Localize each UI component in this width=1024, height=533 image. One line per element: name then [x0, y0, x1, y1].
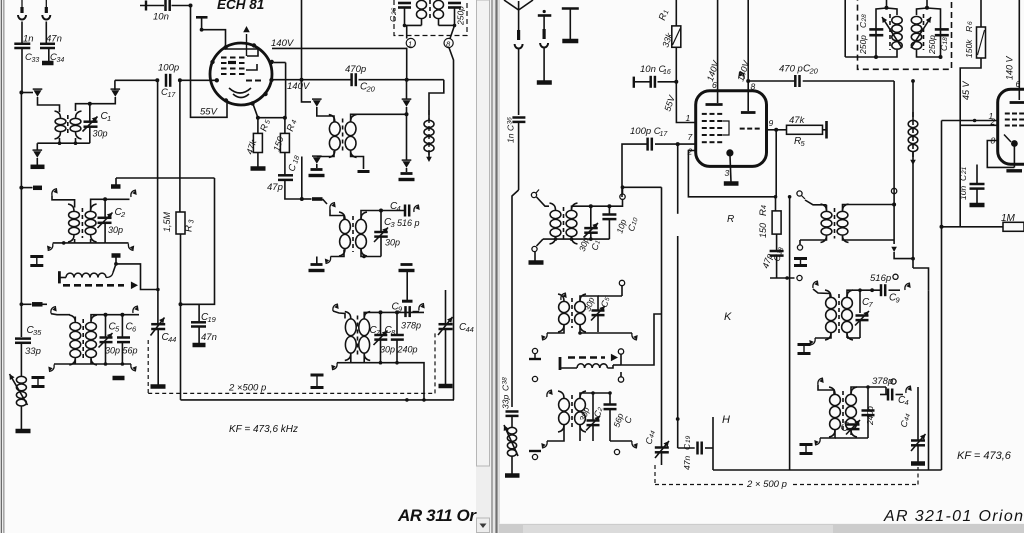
- node: [20, 302, 24, 306]
- pin 1: [406, 38, 415, 48]
- trimmer C5 30p (right): [582, 296, 611, 332]
- wire: [813, 288, 830, 297]
- hook arrow: [818, 378, 824, 385]
- svg-text:47k: 47k: [789, 115, 806, 126]
- wire: [317, 107, 334, 122]
- capacitor C4 (right): [880, 386, 912, 407]
- node: [104, 313, 125, 317]
- trimmer C7 (right): [855, 290, 874, 338]
- IF unit dashed box: [858, 0, 952, 69]
- label 140V: [287, 81, 311, 92]
- svg-text:47n: 47n: [46, 34, 62, 45]
- resistor R6 150k: [964, 21, 986, 58]
- svg-text:378p: 378p: [872, 376, 893, 387]
- wire: [359, 79, 444, 81]
- chassis: [16, 429, 31, 434]
- slug arrow: [21, 89, 42, 97]
- node: [892, 203, 896, 207]
- svg-text:C: C: [682, 443, 692, 450]
- svg-text:8: 8: [751, 82, 756, 92]
- wire: [894, 252, 915, 261]
- coupling bar: [312, 197, 323, 201]
- hook arrow: [333, 304, 339, 311]
- label 55V: [662, 93, 677, 112]
- wire: [868, 387, 880, 395]
- right panel bottom scrollbar: [500, 524, 1024, 533]
- label 140V: [271, 38, 295, 49]
- node: [114, 262, 118, 266]
- terminal: [532, 246, 537, 251]
- ibeam chassis: [798, 345, 811, 354]
- svg-text:3: 3: [189, 220, 196, 224]
- svg-text:1n: 1n: [23, 34, 34, 45]
- svg-text:2: 2: [687, 147, 693, 157]
- wire bottom bus: [54, 359, 131, 364]
- wire: [361, 250, 381, 259]
- capacitor to chassis: [309, 170, 325, 176]
- svg-text:250p: 250p: [456, 6, 466, 26]
- svg-text:30p: 30p: [380, 345, 395, 355]
- coupling bar: [111, 178, 121, 187]
- resistor R1 33k: [657, 9, 681, 48]
- wire: [675, 0, 677, 26]
- capacitor C33 1n: [14, 34, 39, 65]
- wire pin1: [942, 119, 998, 123]
- wire: [675, 47, 677, 82]
- node: [405, 78, 409, 82]
- pin 7 label: [688, 132, 693, 142]
- terminal: [614, 449, 619, 454]
- svg-text:6: 6: [967, 21, 974, 25]
- transformer: [558, 294, 586, 332]
- capacitor C35 33p: [15, 325, 42, 357]
- terminal input 1: [18, 0, 26, 19]
- hook arrow: [905, 283, 911, 290]
- gang link dashed 2x500p (right): [655, 467, 918, 490]
- svg-text:30p: 30p: [385, 238, 400, 248]
- chassis: [537, 80, 552, 85]
- svg-text:55V: 55V: [200, 107, 219, 118]
- resistor R4 150: [271, 118, 298, 153]
- transformer: [829, 387, 857, 437]
- wire: [803, 80, 894, 82]
- node: [300, 78, 304, 82]
- svg-text:16: 16: [663, 69, 671, 76]
- coupling bar: [21, 303, 42, 305]
- capacitor C20 470p: [345, 64, 376, 94]
- wire: [52, 196, 75, 208]
- svg-text:10n: 10n: [153, 12, 169, 23]
- wire: [90, 97, 116, 104]
- slug arrow: [402, 160, 412, 172]
- wire bus: [713, 469, 942, 471]
- gang link dashed: [147, 340, 149, 393]
- slug arrow: [402, 80, 412, 115]
- wire: [333, 311, 345, 319]
- capacitor 250p: [448, 3, 466, 26]
- wire: [180, 234, 182, 400]
- wire: [113, 264, 158, 290]
- capacitor to chassis: [309, 257, 325, 271]
- hook arrow: [541, 333, 547, 340]
- svg-text:19: 19: [208, 315, 217, 324]
- svg-text:240p: 240p: [397, 345, 418, 355]
- svg-text:1: 1: [107, 114, 111, 123]
- gang link dashed: [434, 333, 436, 393]
- wire: [621, 185, 662, 194]
- svg-text:2: 2: [120, 210, 126, 219]
- antenna terminal plug: [515, 10, 523, 115]
- node: [189, 4, 193, 8]
- wire AVC bus: [181, 399, 455, 401]
- svg-text:34: 34: [57, 57, 65, 64]
- wire top bus: [572, 200, 623, 210]
- left panel scrollbar track: [476, 0, 490, 533]
- svg-text:1: 1: [408, 39, 412, 48]
- hook arrow: [323, 199, 336, 210]
- node: [19, 91, 23, 95]
- wire: [917, 387, 919, 395]
- ibeam chassis: [800, 438, 813, 454]
- svg-text:3: 3: [725, 168, 730, 178]
- svg-text:33p: 33p: [501, 395, 511, 409]
- label AR 311: [397, 506, 477, 525]
- hook arrow: [541, 441, 547, 448]
- svg-text:100p: 100p: [158, 63, 179, 74]
- wire: [537, 197, 550, 206]
- tube ECH81 internals: [221, 26, 261, 98]
- node: [178, 78, 182, 82]
- wire: [445, 329, 447, 385]
- bar terminal: [58, 271, 61, 283]
- wire: [302, 157, 312, 200]
- hook arrow: [131, 190, 137, 197]
- wire: [48, 48, 50, 62]
- transformer: [821, 204, 849, 243]
- svg-text:35: 35: [33, 328, 42, 337]
- hook arrow: [52, 189, 58, 196]
- tube EF80 internals: [1004, 89, 1024, 147]
- trimmer C3 (right): [838, 420, 860, 435]
- svg-text:C: C: [958, 174, 968, 181]
- node: [774, 128, 778, 132]
- svg-text:4: 4: [397, 204, 401, 213]
- ibeam chassis: [311, 375, 324, 388]
- bar terminal: [559, 357, 562, 370]
- node: [746, 79, 750, 83]
- node: [674, 80, 678, 84]
- hook arrow: [414, 205, 420, 212]
- antenna coil: [10, 374, 28, 406]
- label 516p: [870, 273, 898, 284]
- label 45V: [961, 80, 971, 100]
- svg-text:KF = 473,6: KF = 473,6: [957, 450, 1012, 462]
- svg-text:44: 44: [168, 335, 176, 344]
- wire: [140, 5, 164, 7]
- hook arrow: [547, 390, 553, 397]
- svg-text:1,5M: 1,5M: [162, 211, 172, 232]
- coupling bar: [112, 256, 121, 264]
- hook arrow: [809, 338, 815, 345]
- variable inductor: [424, 110, 434, 162]
- coil with slug arrow: [911, 14, 931, 50]
- capacitor C19 47n: [191, 312, 217, 343]
- node: [676, 142, 680, 146]
- pin 6 label: [712, 80, 717, 90]
- label ECH 81: [217, 0, 264, 12]
- svg-text:516 p: 516 p: [397, 218, 420, 228]
- left window border: [1, 0, 3, 533]
- svg-text:AR 311 Or: AR 311 Or: [397, 506, 477, 525]
- svg-text:C: C: [388, 15, 398, 22]
- wire: [429, 80, 444, 120]
- wire: [43, 303, 48, 305]
- resistor R4 150 (right): [758, 197, 781, 238]
- svg-text:21: 21: [961, 166, 968, 175]
- svg-text:1: 1: [686, 113, 691, 123]
- grid cap terminal: [196, 17, 208, 29]
- wire: [91, 199, 106, 210]
- wire: [748, 80, 795, 82]
- svg-text:250p: 250p: [858, 35, 868, 55]
- wire C33 down to node: [21, 48, 23, 93]
- wire top bus: [580, 391, 612, 397]
- transformer IFT2: [329, 115, 357, 158]
- pin 1 label: [989, 111, 994, 121]
- chassis: [529, 450, 541, 452]
- label 140V: [705, 59, 721, 83]
- node: [155, 78, 159, 82]
- tube pin contacts: [210, 43, 274, 105]
- chassis: [724, 181, 739, 186]
- wire: [894, 79, 915, 187]
- gang link dashed 2x500p: [148, 383, 435, 394]
- svg-text:100p C: 100p C: [630, 126, 661, 137]
- wire: [257, 153, 259, 168]
- wire: [803, 197, 827, 211]
- node: [940, 225, 944, 229]
- node: [379, 361, 399, 365]
- svg-text:470 p: 470 p: [779, 64, 803, 75]
- svg-text:ECH 81: ECH 81: [217, 0, 264, 12]
- pin 6 label: [1016, 79, 1021, 89]
- variable inductor: [908, 81, 918, 168]
- svg-text:R: R: [964, 26, 974, 32]
- svg-text:30p: 30p: [105, 346, 120, 356]
- wire: [547, 326, 598, 335]
- IF unit dashed box: [394, 0, 467, 36]
- svg-text:9: 9: [769, 118, 774, 128]
- svg-text:1n: 1n: [506, 133, 516, 143]
- pin 8: [444, 38, 453, 48]
- wire: [941, 227, 943, 470]
- svg-text:140 V: 140 V: [1005, 55, 1015, 80]
- node: [833, 384, 835, 386]
- wire bottom of T1: [37, 138, 90, 143]
- coil with slug arrow: [882, 14, 902, 50]
- ibeam chassis: [30, 257, 43, 266]
- hook arrow: [47, 244, 53, 251]
- variable capacitor C44 (right): [643, 187, 669, 465]
- panel separator: [491, 0, 500, 533]
- capacitor 240p (right): [862, 387, 876, 438]
- tube EF80 envelope: [998, 89, 1024, 164]
- wire: [274, 63, 286, 118]
- wire: [36, 158, 38, 167]
- wire: [941, 121, 943, 227]
- wire 10n to 55V bracket: [191, 6, 228, 118]
- wire: [677, 144, 679, 214]
- core arrow dashed: [63, 282, 138, 290]
- wire: [788, 195, 792, 470]
- wire: [331, 250, 345, 257]
- left panel scrollbar thumb: [477, 0, 490, 466]
- svg-text:20: 20: [809, 67, 819, 76]
- node: [103, 197, 107, 201]
- node: [870, 268, 874, 292]
- trimmer C1 30p (right): [577, 206, 602, 252]
- svg-text:1M: 1M: [1001, 213, 1016, 224]
- wire: [845, 0, 876, 57]
- oscillator coupling coil (right): [560, 364, 613, 368]
- wire: [403, 24, 422, 28]
- wire AVC rail: [179, 80, 181, 212]
- svg-text:H: H: [722, 414, 730, 426]
- node: [62, 241, 66, 245]
- svg-text:R: R: [758, 209, 769, 216]
- chassis: [151, 384, 166, 389]
- wire: [285, 180, 302, 199]
- variable capacitor C44 (osc): [438, 290, 474, 335]
- wire: [381, 210, 405, 212]
- wire pin2 loop: [688, 151, 775, 197]
- capacitor C18 47p (right): [760, 234, 785, 270]
- terminal: [532, 454, 537, 459]
- wire top bus: [75, 315, 139, 321]
- wire: [20, 188, 22, 337]
- transformer: [550, 203, 578, 244]
- svg-text:33p: 33p: [25, 346, 41, 357]
- tube ECH81 envelope: [696, 91, 767, 167]
- svg-text:45 V: 45 V: [961, 80, 971, 100]
- capacitor to chassis: [562, 9, 579, 42]
- wire: [363, 354, 365, 363]
- terminal: [797, 275, 802, 280]
- node: [676, 143, 678, 145]
- wire: [406, 271, 408, 291]
- wire: [317, 151, 334, 157]
- capacitor C9 (right): [860, 284, 901, 304]
- gang link dashed (right): [654, 465, 656, 485]
- svg-text:R: R: [727, 214, 734, 225]
- svg-text:47p: 47p: [267, 182, 283, 193]
- wire bottom bus: [351, 354, 424, 400]
- svg-text:R: R: [184, 225, 195, 232]
- slug arrow: [312, 156, 322, 168]
- label K: [724, 311, 732, 323]
- svg-text:140V: 140V: [271, 38, 295, 49]
- svg-text:470p: 470p: [345, 64, 366, 75]
- node: [774, 196, 776, 198]
- terminal: [620, 194, 625, 199]
- label R: [727, 214, 734, 225]
- node: [283, 116, 287, 120]
- svg-text:47n: 47n: [682, 456, 692, 470]
- wire: [51, 314, 70, 315]
- wire: [843, 205, 895, 241]
- pin 8 label: [751, 82, 756, 92]
- wire: [180, 79, 217, 81]
- svg-text:2 × 500 p: 2 × 500 p: [746, 479, 787, 490]
- transformer T1: [55, 111, 82, 139]
- transformer T3: [69, 315, 97, 365]
- node: [156, 288, 160, 292]
- capacitor C17 100p: [158, 63, 179, 100]
- capacitor C26: [388, 3, 411, 25]
- svg-text:26: 26: [391, 7, 398, 16]
- capacitor C8 240p: [385, 312, 418, 362]
- wire: [21, 22, 23, 44]
- node: [405, 112, 409, 116]
- antenna coil (right): [504, 425, 518, 474]
- resistor 1M: [1001, 213, 1024, 231]
- label 378p: [872, 376, 896, 387]
- capacitor C34 47n: [40, 34, 64, 65]
- svg-text:10n C: 10n C: [640, 64, 665, 75]
- wire: [960, 58, 981, 227]
- wire: [181, 304, 200, 322]
- oscillator coupling coil: [59, 273, 113, 278]
- slug arrow: [33, 143, 43, 158]
- node: [256, 116, 260, 120]
- node: [200, 28, 204, 32]
- terminal input 2: [42, 0, 50, 19]
- hook arrow: [561, 293, 567, 300]
- terminal: [532, 376, 537, 381]
- capacitor to chassis: [399, 265, 415, 271]
- hook arrow: [891, 240, 897, 252]
- label 140V: [735, 59, 751, 83]
- wire: [537, 239, 544, 246]
- svg-text:47n: 47n: [201, 332, 217, 343]
- capacitor to chassis: [399, 174, 415, 180]
- svg-text:20: 20: [366, 85, 376, 94]
- pin 2 label: [687, 147, 693, 157]
- wire pin8 loop: [987, 141, 1014, 168]
- hook arrow: [598, 333, 638, 340]
- wire: [800, 236, 827, 240]
- capacitor C4 516p: [390, 201, 420, 228]
- wire top bus: [851, 385, 886, 393]
- trimmer C1 30p: [83, 104, 112, 144]
- wire: [302, 80, 312, 102]
- node: [300, 197, 304, 201]
- coupling bar: [21, 187, 42, 189]
- capacitor C20 470p: [779, 64, 819, 88]
- transformer IFT4 oscillator: [345, 312, 370, 361]
- left panel scrollbar down button: [477, 518, 490, 533]
- terminal: [797, 191, 805, 199]
- trimmer C2 30p: [98, 199, 127, 243]
- chassis: [193, 343, 206, 348]
- hook arrow: [48, 365, 54, 372]
- trimmer C3 30p: [374, 211, 400, 257]
- coupling bar: [358, 170, 370, 173]
- svg-text:19: 19: [685, 435, 692, 443]
- wire: [547, 426, 610, 442]
- wire top bus: [847, 288, 862, 296]
- capacitor C16 10n: [634, 64, 677, 88]
